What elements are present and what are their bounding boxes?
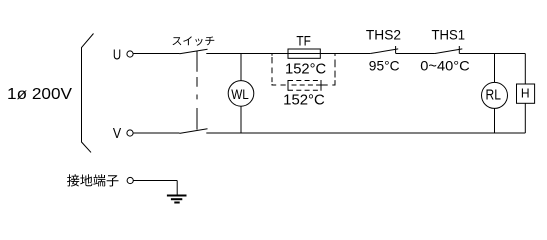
heater H body: [517, 84, 535, 103]
ground terminal: [127, 177, 133, 183]
ground symbol: [167, 196, 187, 203]
svg-text:U: U: [113, 46, 121, 63]
wire top bus segment 1: [206, 53, 370, 55]
dashed enclosure: [272, 54, 335, 85]
switch linkage (dashed): [196, 51, 198, 130]
svg-text:TF: TF: [296, 33, 310, 49]
wire H branch top: [524, 54, 526, 85]
wire H branch bottom: [524, 103, 526, 133]
svg-text:THS2: THS2: [366, 27, 401, 43]
wire ground vertical: [176, 181, 178, 196]
svg-text:V: V: [113, 125, 121, 142]
wire top bus segment 2: [396, 53, 435, 55]
terminal V: [127, 130, 133, 136]
wire WL branch bottom: [240, 106, 242, 133]
svg-text:H: H: [521, 86, 530, 101]
svg-text:WL: WL: [231, 86, 249, 102]
lamp RL: [482, 82, 508, 108]
switch label (katakana suitchi): [173, 36, 215, 45]
thermostat THS1 blade: [435, 49, 462, 54]
svg-text:152°C: 152°C: [283, 93, 325, 109]
wire bottom bus: [206, 132, 525, 134]
wire WL branch top: [240, 54, 242, 81]
wire V to switch: [133, 132, 179, 134]
svg-text:1ø 200V: 1ø 200V: [7, 86, 72, 103]
svg-text:RL: RL: [486, 86, 501, 103]
wire RL branch bottom: [494, 108, 496, 133]
ground terminal label (kanji): [67, 174, 119, 186]
terminal U: [127, 51, 133, 57]
thermal fuse TF body: [288, 49, 320, 58]
source brace: [82, 34, 94, 153]
wire ground horizontal: [133, 180, 177, 182]
wire top bus segment 3: [460, 53, 526, 55]
svg-text:95°C: 95°C: [369, 57, 400, 73]
thermostat THS2 contact tick: [395, 46, 397, 54]
svg-text:THS1: THS1: [432, 27, 466, 43]
svg-text:0~40°C: 0~40°C: [420, 57, 469, 73]
lamp WL: [228, 81, 254, 107]
wire RL branch top: [494, 54, 496, 83]
svg-text:152°C: 152°C: [285, 62, 326, 78]
thermostat THS1 contact tick: [458, 46, 460, 54]
wire U to switch: [133, 53, 179, 55]
spare fuse (dashed): [288, 80, 321, 91]
switch pole 1 blade: [180, 49, 208, 54]
thermostat THS2 blade: [370, 49, 398, 54]
switch pole 2 blade: [180, 129, 208, 134]
